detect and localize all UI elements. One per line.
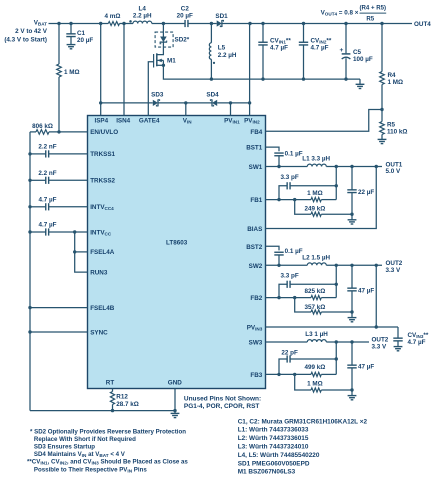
- svg-text:L2 1.5 µH: L2 1.5 µH: [302, 254, 330, 261]
- wire FB1 line: [266, 198, 312, 201]
- ground GND pin: [171, 411, 180, 418]
- capacitor 0.1uF BST1: [266, 147, 303, 166]
- formula VOUT4: [321, 5, 387, 23]
- pin label GND: [168, 380, 182, 387]
- inductor L3 1uH: [305, 331, 328, 342]
- wire VIN pin drop: [185, 103, 187, 116]
- svg-text:499 kΩ: 499 kΩ: [304, 364, 325, 371]
- svg-text:4.7 µF: 4.7 µF: [311, 44, 329, 51]
- wire FB4 feedback: [266, 110, 383, 132]
- pin label FB2: [250, 295, 262, 302]
- pin label PVIN1: [224, 118, 240, 125]
- svg-text:SD2*: SD2*: [175, 37, 190, 44]
- inductor L1 3.3uH: [302, 156, 330, 167]
- inductor L2 1.5uH: [302, 254, 330, 265]
- svg-text:VBAT: VBAT: [34, 19, 47, 26]
- pin label FSEL4B: [90, 305, 115, 312]
- svg-text:PVIN1: PVIN1: [224, 118, 240, 125]
- svg-text:R5: R5: [366, 15, 374, 22]
- pin label TRKSS1: [90, 151, 115, 158]
- ground below C1: [67, 45, 76, 49]
- transistor M1 NMOS: [154, 53, 177, 67]
- resistor 806 kOhm EN divider: [30, 123, 88, 134]
- svg-text:20 µF: 20 µF: [77, 37, 93, 44]
- svg-text:4 mΩ: 4 mΩ: [105, 13, 121, 20]
- resistor 249 kOhm FB1 bottom: [295, 200, 354, 217]
- svg-text:LT8603: LT8603: [166, 239, 188, 246]
- pin label FSEL4A: [90, 249, 115, 256]
- svg-text:357 kΩ: 357 kΩ: [304, 304, 325, 311]
- svg-text:L1 3.3 µH: L1 3.3 µH: [302, 156, 330, 163]
- diode SD2 optional reverse battery: [155, 32, 190, 47]
- svg-text:FB1: FB1: [250, 197, 262, 204]
- svg-text:3.3 V: 3.3 V: [386, 267, 402, 274]
- svg-text:VOUT4 = 0.8 ×: VOUT4 = 0.8 ×: [321, 10, 359, 17]
- wire PVIN1 pin drop: [230, 103, 232, 116]
- svg-text:FB2: FB2: [250, 295, 262, 302]
- svg-text:R12: R12: [116, 394, 128, 401]
- svg-text:C1: C1: [77, 30, 86, 37]
- svg-text:806 kΩ: 806 kΩ: [32, 123, 53, 130]
- pin label ISN4: [116, 118, 130, 125]
- ground below R5: [378, 139, 387, 143]
- svg-text:CVIN3**: CVIN3**: [408, 332, 429, 339]
- pin label SW2: [249, 263, 263, 270]
- svg-text:FSEL4B: FSEL4B: [90, 305, 115, 312]
- svg-text:5.0 V: 5.0 V: [386, 168, 402, 175]
- svg-text:R4: R4: [388, 72, 397, 79]
- wire SD3 SD4 line from ISP4: [101, 102, 153, 104]
- svg-text:SYNC: SYNC: [90, 329, 108, 336]
- wire OUT2 to FB2 divider: [335, 265, 337, 297]
- svg-text:RUN3: RUN3: [90, 269, 108, 276]
- wire FB2 line: [266, 296, 312, 299]
- svg-text:BST2: BST2: [246, 244, 263, 251]
- resistor 1 MOhm FB3 bottom: [295, 374, 354, 392]
- wire M1 gate to GATE4: [148, 62, 153, 116]
- wire GND pin: [174, 389, 176, 411]
- svg-text:OUT4: OUT4: [414, 21, 431, 28]
- pin label BIAS: [247, 226, 262, 233]
- svg-text:Unused Pins Not Shown:: Unused Pins Not Shown:: [184, 395, 261, 402]
- pin label PVIN2: [244, 118, 260, 125]
- svg-text:CVIN1**: CVIN1**: [270, 37, 291, 44]
- resistor 4 mOhm current sense: [105, 13, 121, 26]
- svg-text:4.7 µF: 4.7 µF: [39, 197, 57, 204]
- svg-text:* SD2 Optionally Provides Reve: * SD2 Optionally Provides Reverse Batter…: [30, 428, 186, 435]
- capacitor 47uF OUT2: [347, 265, 374, 312]
- svg-text:L4, L5: Würth 74485540220: L4, L5: Würth 74485540220: [238, 452, 320, 459]
- wire FB3 line: [266, 373, 312, 376]
- svg-text:L3: Würth 74437324010: L3: Würth 74437324010: [238, 444, 309, 451]
- svg-text:1 MΩ: 1 MΩ: [388, 79, 404, 86]
- ground sepic rail: [356, 79, 365, 88]
- wire ISP4 drop: [99, 24, 102, 116]
- capacitor CVIN2 4.7uF: [299, 24, 332, 80]
- svg-text:EN/UVLO: EN/UVLO: [90, 129, 118, 136]
- svg-text:PVIN3: PVIN3: [247, 325, 263, 332]
- IC U1 LT8603 body: [88, 116, 266, 389]
- wire left rail: [28, 132, 31, 411]
- wire bottom ground return: [30, 409, 177, 412]
- svg-text:4.7 µF: 4.7 µF: [270, 44, 288, 51]
- note unused pins: [184, 395, 261, 410]
- svg-text:110 kΩ: 110 kΩ: [387, 128, 407, 135]
- capacitor 2.2nF TRKSS2: [30, 170, 88, 184]
- capacitor 2.2nF TRKSS1: [30, 144, 88, 158]
- svg-text:SD4: SD4: [206, 92, 219, 99]
- svg-text:28.7 kΩ: 28.7 kΩ: [116, 401, 139, 408]
- svg-text:BST1: BST1: [246, 145, 263, 152]
- svg-text:SD3 Ensures Startup: SD3 Ensures Startup: [34, 444, 95, 451]
- wire OUT1 to FB1 divider: [335, 167, 337, 200]
- svg-text:C5: C5: [353, 49, 362, 56]
- svg-text:**CVIN1, CVIN2, and CVIN3 Shou: **CVIN1, CVIN2, and CVIN3 Should Be Plac…: [27, 459, 188, 466]
- wire SW3 line: [266, 341, 308, 343]
- inductor L5 2.2uH shunt: [209, 24, 237, 80]
- wire SD2 to M1 drain: [157, 42, 164, 54]
- resistor R4 1 MOhm: [380, 24, 403, 110]
- svg-text:L5: L5: [218, 45, 226, 52]
- capacitor CVIN3 4.7uF: [393, 327, 429, 346]
- capacitor CVIN1 4.7uF: [258, 24, 291, 80]
- svg-text:ISN4: ISN4: [116, 118, 130, 125]
- wire BIAS to OUT1: [266, 167, 377, 229]
- pin label ISP4: [94, 118, 108, 125]
- resistor R5 110 kOhm: [380, 108, 408, 139]
- capacitor 22uF OUT1: [347, 167, 374, 215]
- svg-text:SW3: SW3: [249, 340, 263, 347]
- capacitor 3.3pF feedforward ch1: [277, 174, 338, 201]
- svg-text:ISP4: ISP4: [94, 118, 108, 125]
- BOM list: [238, 418, 368, 475]
- pin label TRKSS2: [90, 178, 115, 185]
- svg-text:PVIN2: PVIN2: [244, 118, 260, 125]
- pin label SW1: [249, 164, 263, 171]
- svg-text:L4: L4: [139, 6, 147, 13]
- wire PVIN2 pin drop: [249, 24, 251, 116]
- svg-text:TRKSS1: TRKSS1: [90, 151, 115, 158]
- svg-text:3.3 V: 3.3 V: [372, 343, 388, 350]
- pin label PVIN3: [247, 325, 263, 332]
- svg-text:20 µF: 20 µF: [177, 13, 193, 20]
- svg-text:VIN: VIN: [183, 118, 192, 125]
- svg-text:OUT2: OUT2: [386, 260, 403, 267]
- svg-text:BIAS: BIAS: [247, 226, 262, 233]
- wire top rail VBAT to 4m resistor: [49, 22, 109, 25]
- svg-text:SD1 PMEG060V050EPD: SD1 PMEG060V050EPD: [238, 460, 310, 467]
- pin label SYNC: [90, 329, 108, 336]
- resistor 1 MOhm FB1 top: [307, 190, 336, 202]
- svg-text:(R4 + R5): (R4 + R5): [360, 5, 387, 12]
- node OUT4 label: [414, 21, 431, 28]
- svg-text:FB3: FB3: [250, 372, 262, 379]
- pin label VIN: [183, 118, 192, 125]
- wire SEPIC switch node drop to SD2: [162, 24, 164, 37]
- capacitor 22pF feedforward ch3: [277, 350, 338, 376]
- pin label INTVCC: [90, 229, 112, 236]
- svg-text:2.2 µH: 2.2 µH: [218, 52, 237, 59]
- capacitor C2 20uF coupling: [177, 6, 193, 28]
- resistor 357 kOhm FB2 bottom: [295, 298, 354, 315]
- pin label RT: [106, 380, 115, 387]
- wire OUT2 to PVIN3: [375, 265, 377, 327]
- svg-text:CVIN2**: CVIN2**: [311, 37, 332, 44]
- svg-text:L1: Würth 74437336033: L1: Würth 74437336033: [238, 427, 309, 434]
- svg-text:2.2 nF: 2.2 nF: [38, 170, 56, 177]
- capacitor 47uF OUT2 ch3: [347, 342, 374, 390]
- node OUT2 label: [386, 260, 403, 274]
- svg-text:SW1: SW1: [249, 164, 263, 171]
- pin label FB4: [250, 129, 262, 136]
- capacitor C5 100uF output: [340, 24, 373, 80]
- pin label EN/UVLO: [90, 129, 118, 136]
- wire SD4 to PVIN2 drop: [217, 101, 251, 104]
- wire rail 4m to L4: [120, 22, 134, 25]
- diode SD4 VIN keep-alive: [206, 92, 219, 107]
- wire top rail SD1 to OUT4: [222, 22, 412, 25]
- svg-text:M1 BSZ067N06LS3: M1 BSZ067N06LS3: [238, 469, 296, 476]
- svg-text:INTVCC: INTVCC: [90, 229, 112, 236]
- node OUT2 ch3 label: [372, 336, 389, 350]
- svg-text:22 µF: 22 µF: [358, 189, 374, 196]
- resistor R12 28.7 kOhm RT: [110, 389, 138, 411]
- wire SYNC: [30, 331, 88, 333]
- wire SW2 line: [266, 264, 308, 267]
- svg-text:TRKSS2: TRKSS2: [90, 178, 115, 185]
- svg-text:1 MΩ: 1 MΩ: [307, 190, 323, 197]
- inductor L4 2.2uH: [129, 6, 152, 24]
- svg-text:OUT2: OUT2: [372, 336, 389, 343]
- svg-text:GND: GND: [168, 380, 182, 387]
- resistor 499 kOhm FB3 top: [304, 364, 336, 376]
- pin label SW3: [249, 340, 263, 347]
- wire SD3 to SD4: [158, 101, 212, 104]
- pin label INTVCC4: [90, 204, 114, 211]
- footnote SD2 note: [30, 428, 186, 458]
- svg-text:SD4 Maintains VIN at VBAT < 4: SD4 Maintains VIN at VBAT < 4 V: [34, 451, 126, 458]
- resistor 825 kOhm FB2 top: [304, 288, 336, 300]
- ground OUT2 cap: [348, 312, 357, 322]
- wire rail L4 to C2: [152, 22, 185, 25]
- wire rail C2 to SD1: [188, 22, 217, 25]
- svg-text:INTVCC4: INTVCC4: [90, 204, 114, 211]
- svg-text:0.1 µF: 0.1 µF: [285, 248, 303, 255]
- wire FSEL4B: [30, 307, 88, 309]
- svg-text:Replace With Short if Not Requ: Replace With Short if Not Required: [34, 436, 136, 443]
- svg-text:SD3: SD3: [151, 92, 164, 99]
- svg-text:0.1 µF: 0.1 µF: [285, 150, 303, 157]
- svg-text:22 pF: 22 pF: [281, 350, 298, 357]
- capacitor 4.7uF INTVCC: [30, 222, 88, 236]
- capacitor 4.7uF INTVCC4: [30, 197, 88, 211]
- ground OUT2 ch3 cap: [348, 390, 357, 400]
- wire ISN4 drop: [123, 24, 125, 116]
- pin label GATE4: [139, 118, 160, 125]
- svg-text:GATE4: GATE4: [139, 118, 160, 125]
- wire M1 source to sepic ground rail: [162, 60, 360, 80]
- svg-text:249 kΩ: 249 kΩ: [304, 206, 325, 213]
- svg-text:3.3 pF: 3.3 pF: [280, 273, 298, 280]
- svg-text:Possible to Their Respective P: Possible to Their Respective PVIN Pins: [34, 466, 147, 473]
- wire OUT2 line: [326, 264, 382, 267]
- pin label FB3: [250, 372, 262, 379]
- svg-text:100 µF: 100 µF: [353, 56, 373, 63]
- svg-text:+: +: [340, 47, 344, 54]
- diode SD3 startup: [151, 92, 164, 107]
- svg-text:L3 1 µH: L3 1 µH: [305, 331, 328, 338]
- svg-text:2 V to 42 V: 2 V to 42 V: [15, 28, 48, 35]
- capacitor C1 20uF input: [66, 24, 93, 45]
- pin label BST2: [246, 244, 263, 251]
- ground OUT1 cap: [348, 214, 357, 224]
- pin label BST1: [246, 145, 263, 152]
- svg-text:4.7 µF: 4.7 µF: [39, 222, 57, 229]
- wire OUT2 to FB3 divider: [335, 342, 337, 374]
- svg-text:825 kΩ: 825 kΩ: [304, 288, 325, 295]
- svg-text:C1, C2: Murata GRM31CR61H106KA: C1, C2: Murata GRM31CR61H106KA12L ×2: [238, 418, 368, 425]
- svg-text:47 µF: 47 µF: [358, 364, 374, 371]
- svg-text:RT: RT: [106, 380, 115, 387]
- capacitor 0.1uF BST2: [266, 246, 303, 265]
- pin label RUN3: [90, 269, 108, 276]
- svg-text:R5: R5: [387, 121, 396, 128]
- svg-text:M1: M1: [167, 57, 176, 64]
- node OUT1 label: [386, 161, 403, 175]
- svg-text:C2: C2: [181, 6, 190, 13]
- svg-text:3.3 pF: 3.3 pF: [280, 174, 298, 181]
- wire INTVCC to FSEL4A RUN3: [73, 232, 88, 272]
- svg-text:47 µF: 47 µF: [358, 287, 374, 294]
- svg-text:FB4: FB4: [250, 129, 262, 136]
- pin label FB1: [250, 197, 262, 204]
- resistor 1 MOhm VBAT divider top: [57, 24, 80, 132]
- wire PVIN3 line: [266, 325, 399, 328]
- svg-text:4.7 µF: 4.7 µF: [408, 339, 426, 346]
- wire OUT2 ch3 line: [326, 340, 369, 343]
- svg-text:2.2 nF: 2.2 nF: [38, 144, 56, 151]
- svg-text:L2: Würth 74437336015: L2: Würth 74437336015: [238, 435, 309, 442]
- svg-text:SD1: SD1: [215, 13, 228, 20]
- svg-text:(4.3 V to Start): (4.3 V to Start): [4, 36, 47, 43]
- node VBAT input label: [4, 19, 47, 43]
- wire OUT1 line: [326, 165, 382, 168]
- svg-text:FSEL4A: FSEL4A: [90, 249, 115, 256]
- svg-text:PG1-4, POR, CPOR, RST: PG1-4, POR, CPOR, RST: [184, 403, 260, 410]
- svg-text:1 MΩ: 1 MΩ: [307, 380, 323, 387]
- diode SD1 output: [215, 13, 228, 27]
- svg-text:SW2: SW2: [249, 263, 263, 270]
- capacitor 3.3pF feedforward ch2: [277, 273, 338, 300]
- footnote CVIN placement: [27, 459, 188, 474]
- svg-text:1 MΩ: 1 MΩ: [64, 69, 80, 76]
- wire SW1 line: [266, 165, 308, 168]
- ground CVIN3: [394, 347, 403, 351]
- svg-text:2.2 µH: 2.2 µH: [133, 13, 152, 20]
